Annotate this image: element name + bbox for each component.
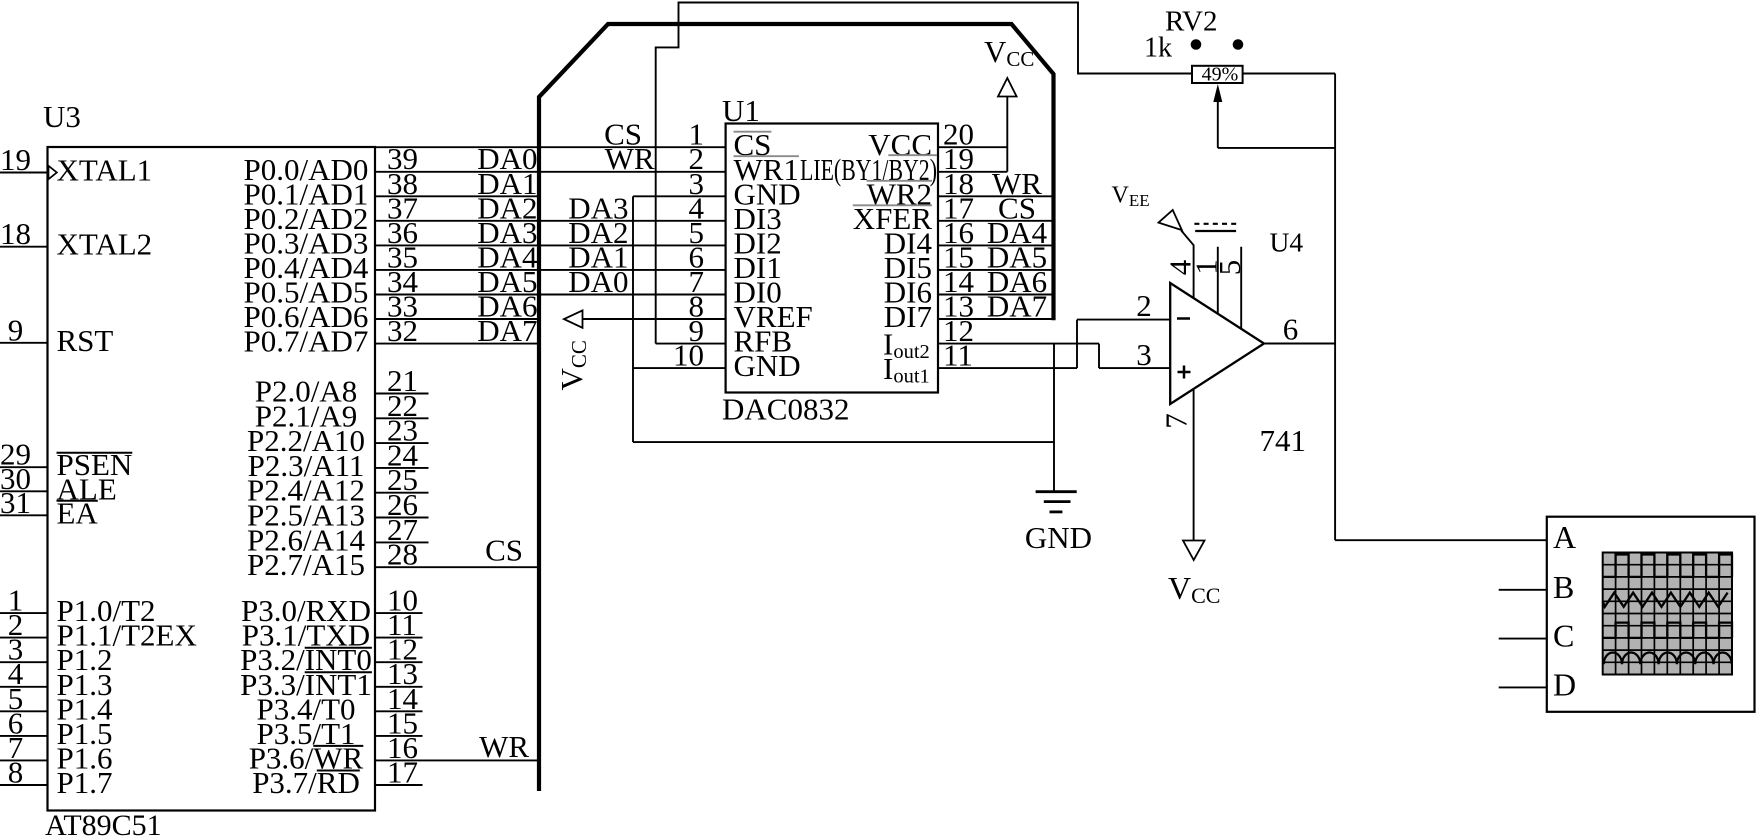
wire net DA0 to U1 pin 7 <box>539 294 726 296</box>
RV2 terminal dot left <box>1191 39 1202 50</box>
potentiometer RV2 body (49% box) <box>1192 66 1243 83</box>
pin label P3.6/WR (U3) <box>249 740 364 775</box>
pin label P3.3/INT1 (U3) <box>240 667 372 702</box>
wire U4 pin 4 (VEE) <box>1181 231 1193 299</box>
svg-text:1k: 1k <box>1144 33 1172 64</box>
svg-text:DAC0832: DAC0832 <box>722 392 849 427</box>
scope trace B: triangle wave <box>1603 593 1728 607</box>
wire scope input A from output node <box>1335 539 1547 541</box>
svg-text:WR: WR <box>605 141 655 176</box>
wire U3 pin 10 (P3.0/RXD) <box>375 612 423 614</box>
svg-text:RST: RST <box>57 323 114 358</box>
svg-text:D: D <box>1553 666 1576 702</box>
ground symbol GND <box>1036 492 1077 512</box>
wire U3 pin 13 (P3.3/INT1) <box>375 686 423 688</box>
wire U3 pin 36 (P0.3/AD3) net DA3 <box>375 244 539 246</box>
scope trace C: square wave <box>1603 623 1732 638</box>
IC U1 DAC0832 body <box>726 124 938 393</box>
wire U1 pin 17 (XFER) net CS <box>938 220 1054 222</box>
wire U3 pin 30 (ALE) <box>0 490 48 492</box>
wire U1 pin 13 (DI7) net DA7 <box>938 318 1054 320</box>
wire U3 pin 18 (XTAL2) <box>0 246 48 248</box>
pin number 9 (U1 RFB) <box>656 343 726 345</box>
svg-text:7: 7 <box>1159 413 1194 429</box>
wire U1 pin 11 Iout1 to opamp - input <box>938 320 1170 369</box>
IC U3 AT89C51 body <box>48 147 376 811</box>
wire U4 pin 1 (offset null) <box>1217 247 1219 314</box>
svg-text:GND: GND <box>1025 520 1092 555</box>
pin label XFER with overline (U1) <box>853 201 933 236</box>
scope trace A: square wave <box>1603 555 1732 577</box>
wire U3 pin 12 (P3.2/INT0) <box>375 661 423 663</box>
pin label WR2 with overline (U1) <box>867 176 932 211</box>
wire U3 pin 17 (P3.7/RD) <box>375 784 423 786</box>
wire U3 pin 27 (P2.6/A14) <box>375 541 429 543</box>
pin label EA (U3) <box>57 495 99 530</box>
svg-text:6: 6 <box>1283 312 1299 347</box>
wire U1 pin 10 GND stub <box>633 367 726 369</box>
wire net DA2 to U1 pin 5 <box>539 244 726 246</box>
wire U3 pin 35 (P0.4/AD4) net DA4 <box>375 269 539 271</box>
wire U4 pin 5 (offset null) <box>1240 247 1242 329</box>
wire U3 pin 26 (P2.5/A13) <box>375 517 429 519</box>
scope screen grid <box>1603 553 1732 675</box>
svg-text:17: 17 <box>387 755 418 790</box>
wire U4 pin 7 (VCC) <box>1193 389 1195 541</box>
svg-text:28: 28 <box>387 537 418 572</box>
svg-text:2: 2 <box>1136 288 1152 323</box>
wire U3 pin 15 (P3.5/T1) <box>375 735 423 737</box>
pin label WR1 with overline (U1) <box>734 152 799 187</box>
svg-text:U4: U4 <box>1270 226 1304 257</box>
svg-text:A: A <box>1553 519 1576 555</box>
wire net WR to U1 pin 2 <box>539 171 726 173</box>
wire U3 pin 7 (P1.6) <box>0 759 48 761</box>
wire GND tap from Iout2 node <box>1053 344 1055 492</box>
pin label P3.7/RD (U3) <box>252 765 360 800</box>
wire U1 pin 12 Iout2 to opamp + input <box>938 344 1170 369</box>
offset null dashed mark <box>1194 223 1237 225</box>
power VCC arrow (U4 pin 7, pointing down) <box>1183 541 1205 561</box>
node: DA bus ladder top line <box>375 146 539 148</box>
wire U3 pin 31 (EA) <box>0 514 48 516</box>
svg-text:WR: WR <box>479 729 529 764</box>
svg-text:741: 741 <box>1260 423 1307 458</box>
pin label PSEN (U3) <box>57 447 133 482</box>
svg-text:B: B <box>1553 569 1574 605</box>
power VCC arrow (U1 pins 19/20, pointing up) <box>998 78 1017 172</box>
pin label CS with overline (U1) <box>734 127 772 162</box>
clock marker XTAL1 <box>49 166 57 179</box>
op-amp U4 triangle <box>1170 283 1264 404</box>
wire net DA3 to U1 pin 4 <box>539 220 726 222</box>
offset null solid mark <box>1195 230 1236 232</box>
wire U3 pin 33 (P0.6/AD6) net DA6 <box>375 318 539 320</box>
svg-text:11: 11 <box>943 338 973 373</box>
wire net DA1 to U1 pin 6 <box>539 269 726 271</box>
wire U1 pin 18 (WR2) net WR <box>938 195 1054 197</box>
svg-text:P0.7/AD7: P0.7/AD7 <box>244 324 369 359</box>
wire scope input D <box>1499 686 1547 688</box>
wire U3 pin 8 (P1.7) <box>0 784 48 786</box>
svg-text:3: 3 <box>1136 337 1152 372</box>
svg-text:49%: 49% <box>1202 64 1239 86</box>
wire U3 pin 34 (P0.5/AD5) net DA5 <box>375 294 539 296</box>
wire U1 pin 15 (DI5) net DA5 <box>938 269 1054 271</box>
svg-text:U3: U3 <box>43 99 81 134</box>
wire U3 pin 14 (P3.4/T0) <box>375 710 423 712</box>
wire U3 pin 5 (P1.4) <box>0 710 48 712</box>
svg-text:DA7: DA7 <box>477 313 537 348</box>
wire U1 pin 3 GND stub <box>633 195 726 197</box>
svg-text:XTAL1: XTAL1 <box>57 153 153 188</box>
wire output node vertical (opamp out / RV2 / scope A) <box>1334 74 1336 541</box>
wire GND: U1 pin3/pin10 down to ground rail <box>632 196 634 442</box>
svg-text:P2.7/A15: P2.7/A15 <box>247 547 365 582</box>
wire scope input B <box>1499 589 1547 591</box>
svg-text:8: 8 <box>8 755 24 790</box>
svg-text:RV2: RV2 <box>1165 6 1217 38</box>
wire U3 pin 22 (P2.1/A9) <box>375 417 429 419</box>
power VCC arrow (VREF supply, pointing left) <box>564 310 583 327</box>
svg-text:19: 19 <box>0 142 31 177</box>
wire U3 pin 2 (P1.1/T2EX) <box>0 637 48 639</box>
RV2 wiper arrow <box>1213 84 1222 148</box>
wire ground rail (bottom) <box>633 441 1054 443</box>
wire U3 pin 24 (P2.3/A11) <box>375 467 429 469</box>
scope trace D: sine humps <box>1604 652 1732 664</box>
wire U3 pin 28 (P2.7/A15) <box>375 566 539 568</box>
wire U3 pin 29 (PSEN) <box>0 466 48 468</box>
wire U3 pin 16 (P3.6/WR) <box>375 759 539 761</box>
wire U3 pin 19 (XTAL1) <box>0 172 48 174</box>
pin label LIE(BY1/BY2) with overline on BY2 (U1) <box>800 152 937 187</box>
wire U1 pin 14 (DI6) net DA6 <box>938 294 1054 296</box>
wire U3 pin 37 (P0.2/AD2) net DA2 <box>375 220 539 222</box>
op-amp plus sign <box>1178 366 1191 379</box>
wire U3 pin 4 (P1.3) <box>0 686 48 688</box>
wire U3 pin 32 (P0.7/AD7) net DA7 <box>375 343 539 345</box>
svg-text:GND: GND <box>734 348 801 383</box>
wire U1 pin 8 VREF <box>581 318 726 320</box>
svg-text:P1.7: P1.7 <box>57 765 113 800</box>
svg-text:XTAL2: XTAL2 <box>57 227 153 262</box>
wire U1 pin 16 (DI4) net DA4 <box>938 244 1054 246</box>
wire net CS to U1 pin 1 <box>539 146 726 148</box>
wire U3 pin 11 (P3.1/TXD) <box>375 637 423 639</box>
svg-text:AT89C51: AT89C51 <box>45 809 162 838</box>
svg-text:DA7: DA7 <box>987 289 1047 324</box>
wire U3 pin 6 (P1.5) <box>0 735 48 737</box>
svg-text:32: 32 <box>387 313 418 348</box>
wire U1 pin 20 VCC stub <box>938 146 1007 148</box>
svg-text:U1: U1 <box>722 93 760 128</box>
svg-text:9: 9 <box>8 312 24 347</box>
op-amp minus sign <box>1177 317 1190 320</box>
wire RFB feedback loop to RV2 <box>656 3 1192 344</box>
wire U3 pin 25 (P2.4/A12) <box>375 492 429 494</box>
wire RV2 right terminal <box>1243 73 1336 75</box>
wire RV2 wiper to output node <box>1218 147 1335 149</box>
oscilloscope module box <box>1547 517 1755 712</box>
wire scope input C <box>1499 638 1547 640</box>
svg-text:18: 18 <box>0 216 31 251</box>
scope screen background <box>1603 553 1732 675</box>
RV2 terminal dot right <box>1233 39 1244 50</box>
svg-text:C: C <box>1553 618 1574 654</box>
svg-text:DA0: DA0 <box>568 264 628 299</box>
wire U3 pin 23 (P2.2/A10) <box>375 442 429 444</box>
wire U3 pin 21 (P2.0/A8) <box>375 393 429 395</box>
wire U3 pin 38 (P0.1/AD1) net DA1 <box>375 195 539 197</box>
wire U3 pin 3 (P1.2) <box>0 661 48 663</box>
svg-text:10: 10 <box>673 338 704 373</box>
wire U4 output pin 6 <box>1264 343 1335 345</box>
wire U1 pin 19 ILE stub <box>938 171 1007 173</box>
svg-text:CS: CS <box>485 533 523 568</box>
wire U3 pin 1 (P1.0/T2) <box>0 612 48 614</box>
wire U3 pin 39 (P0.0/AD0) net DA0 <box>375 171 539 173</box>
svg-text:31: 31 <box>0 485 31 520</box>
bus boundary polyline (thick) <box>539 24 1054 791</box>
wire U3 pin 9 (RST) <box>0 342 48 344</box>
pin label P3.2/INT0 (U3) <box>240 642 372 677</box>
svg-text:5: 5 <box>1212 260 1247 276</box>
power VEE arrow <box>1159 210 1182 230</box>
